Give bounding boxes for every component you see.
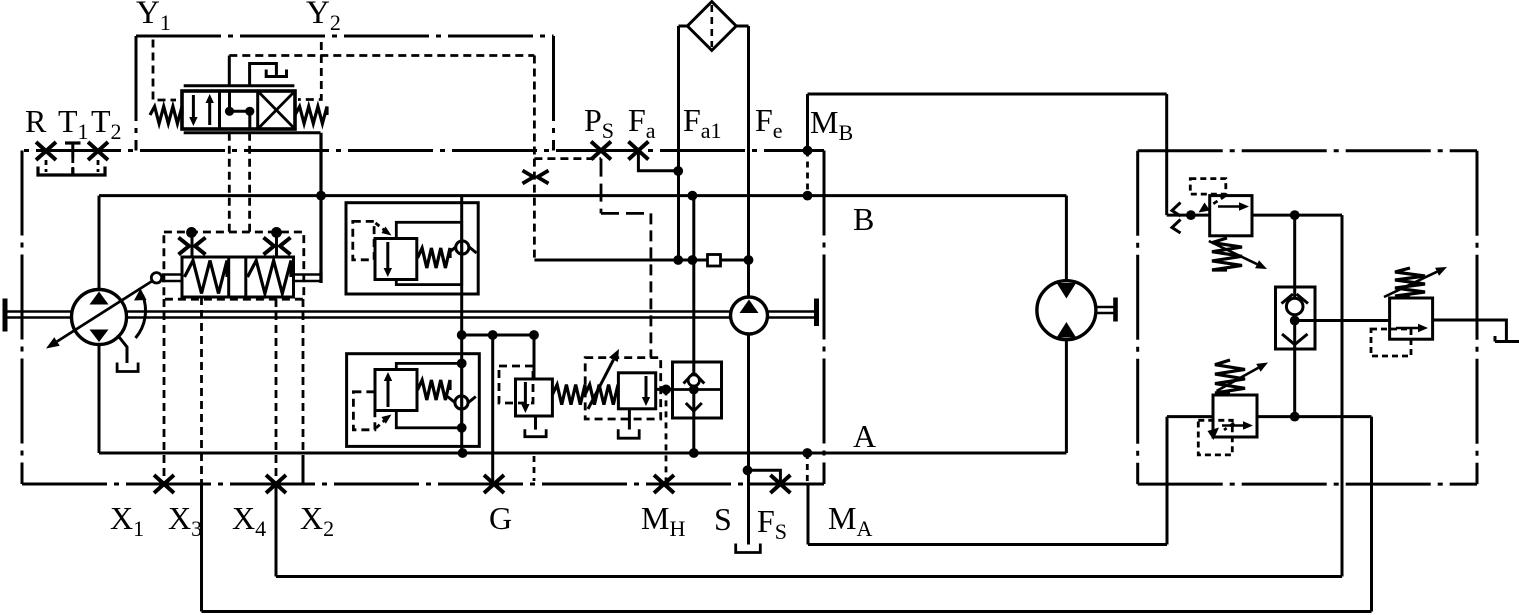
- port T1 symbol: [65, 143, 81, 158]
- tank manifold under R T1 T2: [38, 167, 105, 176]
- label B: [853, 201, 874, 237]
- relief RV3 variable arrow: [1209, 241, 1267, 269]
- label FS: [757, 503, 787, 544]
- dashed solenoid box right L: [298, 42, 321, 100]
- label X4: [232, 500, 266, 541]
- relief RV1 pilot dashed arrow: [376, 223, 392, 236]
- valve PV2 square: [618, 373, 655, 409]
- relief RV1 arrow: [384, 242, 392, 277]
- motor M1 upper triangle: [1057, 283, 1076, 299]
- junction B line at 692: [688, 191, 698, 201]
- shaft end bracket: [3, 299, 8, 332]
- relief RV2 channel: [460, 335, 463, 453]
- check CK1 ball: [688, 375, 699, 386]
- junction Fa1 leg end: [673, 255, 683, 265]
- pump P1 lower triangle: [90, 330, 109, 343]
- motor M1 shaft: [1096, 298, 1116, 322]
- motor block boundary top: [1138, 149, 1477, 152]
- relief RV4 output: [1257, 415, 1372, 418]
- shaft middle upper line: [127, 310, 732, 313]
- pilot line PS down to pilot relief: [650, 213, 653, 357]
- A work line: [99, 452, 1066, 455]
- junction CK1 on A line: [689, 448, 699, 458]
- shaft left upper line: [6, 310, 72, 313]
- label A: [853, 418, 876, 454]
- junction Fe leg: [744, 255, 754, 265]
- pilot supply line: [534, 259, 707, 262]
- relief RV4 arrow: [1222, 421, 1253, 429]
- svg-text:Fe: Fe: [755, 102, 783, 143]
- pilot control block boundary - top edge: [136, 35, 554, 38]
- junction S branch: [743, 465, 753, 475]
- port FS plug X: [770, 475, 790, 493]
- line MB down to right block: [1165, 94, 1168, 215]
- relief RV3 spring: [1212, 238, 1242, 270]
- svg-text:FS: FS: [757, 503, 787, 544]
- valve Y feedback hook: [250, 64, 277, 86]
- shaft middle lower line: [127, 316, 732, 319]
- line X3 upper: [200, 297, 203, 484]
- port T2 plug X: [88, 142, 108, 160]
- link line at 335: [462, 334, 534, 337]
- tank S: [736, 544, 761, 553]
- lever pivot circle: [151, 273, 161, 283]
- relief RV2 pilot dashed arrow: [376, 415, 392, 429]
- label T2: [91, 103, 122, 144]
- shuttle SH1 line top: [1293, 215, 1296, 297]
- relief RV3 arrow: [1218, 202, 1249, 210]
- label R: [25, 103, 47, 139]
- rod end bar: [319, 271, 322, 283]
- pilot link Y2 to PS: [534, 157, 601, 160]
- line MA dashed tap: [806, 453, 809, 484]
- label PS: [584, 102, 614, 143]
- junction RV4 output: [1290, 412, 1300, 422]
- line X3 lower: [200, 484, 203, 612]
- line MA drop: [807, 484, 810, 545]
- pump P1 variable arrow lever: [46, 281, 153, 349]
- shuttle SH1 down line: [1293, 321, 1296, 417]
- filter F1 diamond: [687, 2, 736, 51]
- svg-text:X3: X3: [168, 500, 202, 541]
- valve PV2 variable arrow: [588, 349, 619, 409]
- label X3: [168, 500, 202, 541]
- svg-text:R: R: [25, 103, 47, 139]
- shuttle SH1 lower chevron: [1282, 334, 1308, 345]
- relief RV4 pilot arrow: [1208, 423, 1235, 440]
- valve PV1 square: [516, 379, 553, 416]
- pilot pump P2 circle: [731, 297, 768, 334]
- relief RV3 output: [1252, 214, 1342, 217]
- svg-text:PS: PS: [584, 102, 614, 143]
- line Fa to Fa1: [638, 151, 678, 171]
- rail X4 riser: [1341, 215, 1344, 576]
- port Fa plug X: [628, 142, 648, 160]
- port R plug X: [36, 142, 56, 160]
- relief RV4 pilot dashed box: [1198, 420, 1232, 455]
- relief RV3 input chevrons: [1172, 203, 1181, 234]
- relief RV2 outer box: [347, 354, 480, 447]
- pilot control block boundary - left edge: [135, 36, 138, 151]
- valve Y bottom rail: [184, 131, 321, 134]
- stub below A line: [533, 456, 536, 481]
- valve PV1 arrow: [521, 382, 529, 413]
- relief RV2 loop: [396, 363, 461, 427]
- valve PV2 dashed box: [585, 358, 661, 419]
- actuator rod left: [162, 275, 182, 282]
- line MB riser: [806, 94, 809, 151]
- shuttle SH1 junction: [1290, 316, 1300, 326]
- shaft right upper line: [768, 310, 815, 313]
- label Fe: [755, 102, 783, 143]
- junction A at RV2: [458, 448, 468, 458]
- relief RV4 input line: [1167, 415, 1213, 418]
- label Fa1: [683, 102, 722, 143]
- junction link right: [529, 330, 539, 340]
- valve RV5 pilot dashed box: [1371, 329, 1411, 356]
- main pump block boundary - bottom edge: [22, 483, 824, 486]
- shuttle SH1 wings: [1282, 294, 1309, 304]
- A line to motor: [1065, 341, 1068, 453]
- junction A at MA: [802, 448, 812, 458]
- junction link middle: [488, 330, 498, 340]
- check CK1 line: [692, 196, 695, 453]
- pump P1 upper triangle: [90, 292, 109, 305]
- svg-text:G: G: [489, 500, 512, 536]
- drain line from R: [45, 160, 48, 172]
- pilot supply line right of orifice: [721, 259, 749, 262]
- main pump block boundary - top edge with ports: [22, 149, 824, 152]
- motor M1 circle: [1037, 281, 1096, 340]
- label Y2: [306, 0, 341, 35]
- pilot line Y2 riser from valve: [228, 56, 231, 86]
- relief RV1 channel: [460, 196, 463, 335]
- valve PV2 output: [656, 388, 673, 391]
- svg-text:X2: X2: [300, 500, 334, 541]
- valve PV1 drain: [534, 416, 537, 430]
- svg-text:B: B: [853, 201, 874, 237]
- svg-text:MH: MH: [641, 500, 685, 541]
- valve PV1 spring: [552, 385, 585, 405]
- pilot line PS horizontal: [601, 212, 651, 215]
- actuator right spring: [248, 261, 292, 294]
- svg-text:Y1: Y1: [136, 0, 171, 35]
- line X4 lower: [275, 484, 278, 577]
- port G plug X: [484, 475, 504, 493]
- shaft left lower line: [6, 316, 72, 319]
- valve RV5 output tick: [1495, 336, 1519, 342]
- line MH dashed: [665, 389, 668, 482]
- label G: [489, 500, 512, 536]
- throttle on Y2 drop: [523, 171, 549, 184]
- valve Y top rail: [184, 84, 295, 87]
- line MB dashed tap: [806, 151, 809, 196]
- junction MB on boundary: [803, 146, 813, 156]
- valve PV1 input: [533, 335, 536, 379]
- pilot line PS drop: [600, 159, 603, 214]
- relief RV2 spring: [418, 380, 451, 400]
- relief RV1 loop: [396, 222, 461, 284]
- rail MA to right block: [808, 543, 1167, 546]
- pilot cap left line: [191, 232, 194, 257]
- rail X3 riser: [1370, 417, 1373, 612]
- valve RV5 square: [1390, 298, 1433, 339]
- actuator dashed enclosure: [164, 232, 304, 299]
- actuator body: [182, 257, 294, 297]
- pilot line X1: [163, 299, 166, 483]
- valve Y left spring: [150, 107, 182, 124]
- pilot pump P2 triangle: [740, 300, 759, 314]
- main pump block boundary - right edge: [823, 151, 826, 485]
- relief RV3 square: [1210, 196, 1252, 236]
- leg Fe: [736, 26, 749, 260]
- main pump block boundary - left edge: [21, 151, 24, 485]
- junction on pilot supply: [688, 255, 698, 265]
- svg-text:A: A: [853, 418, 876, 454]
- svg-text:MB: MB: [810, 104, 853, 145]
- valve RV5 spring: [1395, 268, 1425, 296]
- svg-text:T1: T1: [58, 103, 89, 144]
- pilot cap right throttle: [264, 238, 291, 255]
- svg-text:Fa1: Fa1: [683, 102, 722, 143]
- junction valve Y output on B line: [316, 191, 326, 201]
- relief RV1 pilot dashed box: [353, 221, 374, 259]
- svg-text:S: S: [714, 501, 732, 537]
- shuttle SH1 ball: [1286, 298, 1303, 315]
- pilot cap left throttle: [179, 238, 206, 255]
- relief RV1 spring: [418, 248, 451, 268]
- B line to pump: [98, 196, 101, 290]
- pilot pump feed line: [747, 260, 750, 297]
- pilot line Y2 drop: [533, 56, 536, 159]
- label MA: [828, 500, 872, 541]
- line MB top horizontal: [808, 93, 1167, 96]
- pilot drop to actuator right: [248, 133, 251, 232]
- relief RV4 spring: [1215, 360, 1245, 393]
- label MB: [810, 104, 853, 145]
- relief RV1 outer box: [346, 203, 478, 294]
- label X2: [300, 500, 334, 541]
- relief RV4 variable arrow: [1217, 363, 1268, 392]
- label Y1: [136, 0, 171, 35]
- valve PV2 variable spring: [585, 385, 618, 405]
- shaft right lower line: [768, 316, 815, 319]
- pilot cap right junction: [271, 227, 282, 238]
- relief RV1 valve square: [375, 239, 417, 280]
- feedback cup: [266, 70, 286, 77]
- pilot pump suction line S: [747, 334, 750, 545]
- rail X3 horizontal: [202, 610, 1372, 613]
- pump P1 circle: [72, 290, 127, 345]
- valve Y right section crossed arrows: [258, 91, 295, 129]
- label Fa: [628, 102, 656, 143]
- junction MB on B line: [803, 191, 813, 201]
- svg-text:T2: T2: [91, 103, 122, 144]
- shaft right bar: [814, 299, 819, 327]
- relief RV2 pilot dashed box: [353, 392, 375, 430]
- pump drain tank: [117, 363, 138, 372]
- junction Fa on Fa1 leg: [673, 166, 683, 176]
- label T1: [58, 103, 89, 144]
- pump case drain: [118, 335, 128, 363]
- junction link left: [457, 330, 467, 340]
- filter F1 element dashed: [710, 5, 713, 47]
- relief RV2 arrow: [384, 372, 392, 407]
- relief RV2 valve square: [375, 370, 417, 411]
- drain line from T2: [97, 160, 100, 172]
- check CK1 box: [673, 362, 722, 418]
- dashed solenoid box left L: [153, 40, 176, 101]
- relief RV1 seat ball: [449, 241, 477, 254]
- branch to FS: [748, 470, 781, 482]
- port PS plug X: [591, 142, 611, 160]
- valve Y output down to B line: [319, 133, 322, 283]
- port MH plug X: [654, 475, 674, 493]
- valve PV2 tank: [618, 429, 639, 438]
- B line to motor: [1065, 196, 1068, 281]
- stroke direction arc: [134, 289, 147, 339]
- junction RV2 loop top: [457, 359, 467, 369]
- valve PV2 arrow: [642, 376, 650, 406]
- junction RV3 input: [1186, 210, 1196, 220]
- motor block boundary left: [1136, 151, 1139, 484]
- motor block boundary right: [1476, 151, 1479, 484]
- shuttle SH1 box: [1276, 287, 1316, 349]
- relief RV4 square: [1213, 395, 1257, 437]
- pilot line Y2 horizontal: [229, 54, 534, 57]
- line G: [491, 335, 494, 483]
- svg-text:Y2: Y2: [306, 0, 341, 35]
- valve PV1 tank: [525, 429, 546, 437]
- relief RV3 pilot arrow: [1199, 196, 1226, 213]
- valve Y section dividers: [220, 91, 258, 129]
- rail X4 horizontal: [276, 575, 1342, 578]
- pilot cap right line: [275, 232, 278, 257]
- svg-text:MA: MA: [828, 500, 872, 541]
- port X4 plug X: [266, 475, 286, 493]
- valve Y left section arrows: [189, 94, 214, 126]
- motor block boundary bottom: [1138, 483, 1477, 486]
- relief RV3 input line: [1167, 214, 1210, 217]
- actuator rod right: [294, 275, 320, 282]
- valve Y body outline: [182, 91, 295, 129]
- actuator left spring: [185, 261, 228, 294]
- junction RV3 output: [1290, 210, 1300, 220]
- drain line from T1: [71, 158, 74, 175]
- rail MA riser: [1166, 417, 1169, 545]
- label MH: [641, 500, 685, 541]
- relief RV3 pilot dashed box: [1190, 179, 1226, 195]
- svg-text:Fa: Fa: [628, 102, 656, 143]
- valve RV5 output: [1433, 320, 1519, 342]
- B work line: [99, 194, 1066, 197]
- actuator piston: [229, 257, 246, 297]
- line X4 upper: [275, 299, 278, 484]
- junction PV2 output: [661, 385, 671, 395]
- pilot line Y2 drop lower: [533, 159, 536, 260]
- valve PV1 pilot dashed loop: [499, 366, 533, 403]
- valve RV5 variable arrow: [1384, 267, 1447, 297]
- relief RV2 seat ball: [448, 396, 476, 409]
- line X2 lower: [302, 455, 305, 484]
- pilot drop to actuator left: [228, 133, 231, 232]
- svg-text:X4: X4: [232, 500, 266, 541]
- svg-text:X1: X1: [110, 500, 144, 541]
- check CK1 divider: [673, 388, 722, 391]
- pilot cap left junction: [186, 227, 197, 238]
- line X2 upper: [302, 299, 305, 455]
- junction RV2 loop bottom: [457, 423, 467, 433]
- check CK1 down arrow: [686, 403, 702, 411]
- check CK1 seat wings: [684, 374, 705, 384]
- valve Y centre section blocked ports: [225, 91, 255, 129]
- check CK1 junction: [689, 385, 699, 395]
- pilot control block boundary - right edge: [552, 36, 555, 151]
- label S: [714, 501, 732, 537]
- label X1: [110, 500, 144, 541]
- valve PV2 drain: [628, 409, 631, 430]
- leg Fa1: [679, 26, 689, 260]
- valve Y right spring: [295, 107, 327, 124]
- shuttle SH1 side line: [1295, 319, 1390, 322]
- orifice O1: [708, 255, 721, 267]
- port X1 plug X: [154, 475, 174, 493]
- pump P1 outlet down: [98, 345, 101, 454]
- motor M1 lower triangle: [1057, 322, 1076, 338]
- valve RV5 arrow: [1396, 324, 1428, 332]
